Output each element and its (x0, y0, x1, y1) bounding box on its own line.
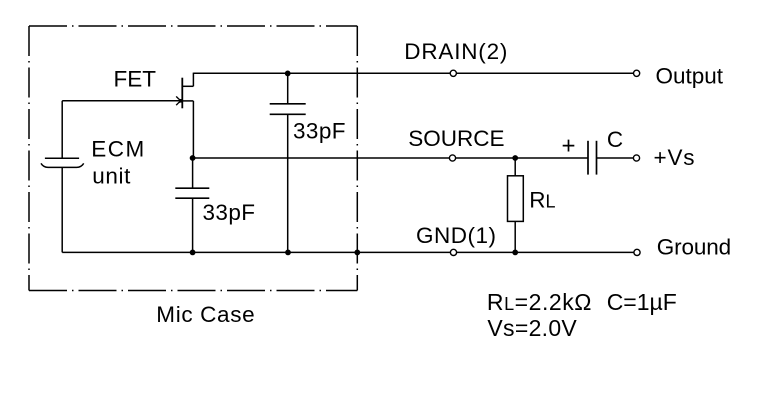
svg-text:Vs=2.0V: Vs=2.0V (487, 315, 577, 341)
junction dot ground-RL (512, 250, 518, 256)
wire gate (62, 100, 181, 102)
terminal pin 2 circle on drain wire (450, 70, 456, 76)
capacitor C electrolytic (588, 141, 597, 175)
svg-text:unit: unit (92, 164, 131, 189)
mic case dashed border top (29, 25, 357, 27)
resistor RL (508, 158, 524, 252)
svg-text:RL: RL (529, 188, 555, 213)
wire source horizontal (193, 157, 588, 159)
svg-text:33pF: 33pF (203, 200, 256, 225)
svg-text:FET: FET (114, 67, 157, 92)
wire ground horizontal (62, 251, 633, 253)
junction dot ground-cap1 (190, 250, 196, 256)
ground terminal circle (634, 249, 640, 255)
svg-text:DRAIN(2): DRAIN(2) (404, 39, 508, 64)
terminal pin 1 circle on ground wire (450, 249, 456, 255)
svg-text:C: C (607, 127, 623, 152)
junction dot source-RL (512, 155, 518, 161)
mic case dashed border right (356, 26, 358, 291)
wire drain horizontal (193, 72, 633, 74)
ECM unit electret capsule (41, 101, 84, 253)
junction dot drain-cap (285, 71, 291, 77)
output terminal circle (634, 70, 640, 76)
svg-text:+: + (562, 133, 576, 160)
svg-text:Mic Case: Mic Case (156, 302, 255, 327)
svg-text:C=1µF: C=1µF (607, 289, 677, 315)
capacitor 33pF upper (drain bypass) (270, 73, 306, 252)
capacitor 33pF lower (source bypass) (175, 158, 209, 252)
svg-text:ECM: ECM (91, 136, 146, 161)
mic case dashed border bottom (29, 290, 357, 292)
svg-text:RL=2.2kΩ: RL=2.2kΩ (487, 289, 592, 315)
junction dot source-FET (190, 155, 196, 161)
junction dot ground-cap2 (285, 250, 291, 256)
+Vs terminal circle (633, 155, 639, 161)
junction dot ground-case (354, 250, 360, 256)
transistor FET (182, 73, 194, 158)
svg-text:33pF: 33pF (293, 119, 346, 144)
label ECM unit (91, 136, 146, 188)
svg-text:Output: Output (656, 64, 724, 89)
svg-text:+Vs: +Vs (654, 145, 696, 170)
mic case dashed border left (28, 26, 30, 291)
wire from capacitor C to +Vs terminal (597, 157, 633, 159)
gate arrowhead (176, 96, 183, 105)
svg-text:SOURCE: SOURCE (408, 126, 504, 151)
terminal pin 3 circle on source wire (449, 155, 455, 161)
svg-text:Ground: Ground (657, 235, 731, 260)
svg-text:GND(1): GND(1) (416, 223, 497, 248)
